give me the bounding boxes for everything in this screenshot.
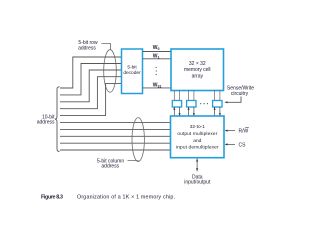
wire column address bit 4 bbox=[60, 149, 171, 151]
svg-text:input demultiplexer: input demultiplexer bbox=[176, 145, 219, 151]
memory cell array U2 bbox=[171, 49, 224, 91]
wire array to sense amp 1 left bbox=[173, 91, 175, 101]
wire word line W1 bbox=[143, 58, 172, 60]
svg-text:R/W: R/W bbox=[239, 129, 249, 135]
wire row address bit 3 bbox=[60, 77, 122, 109]
wire sense amp 2 input arrow up bbox=[188, 107, 190, 116]
wire sense amp 3 input arrow up bbox=[214, 107, 216, 116]
svg-text:address: address bbox=[101, 164, 119, 170]
oval grouping row-address wires bbox=[104, 50, 117, 93]
sense/write amp 2 bbox=[187, 101, 196, 108]
pointer from row-address label to oval bbox=[102, 44, 111, 50]
pointer from column-address label to oval bbox=[128, 161, 139, 162]
ellipsis word lines bbox=[156, 67, 157, 75]
wire CS control arrow bbox=[225, 143, 235, 145]
wire word line W0 bbox=[143, 51, 172, 53]
svg-text:32 × 32: 32 × 32 bbox=[189, 61, 206, 67]
wire sense amp 3 output arrow down bbox=[219, 107, 221, 116]
label 5-bit column address bbox=[97, 158, 124, 169]
svg-text:CS: CS bbox=[239, 142, 247, 148]
svg-text:input/output: input/output bbox=[184, 180, 211, 186]
wire sense amp 2 output arrow down bbox=[193, 107, 195, 116]
label R/W-bar bbox=[239, 127, 249, 134]
wire array to sense amp 3 left bbox=[214, 91, 216, 101]
svg-text:Figure 8.3: Figure 8.3 bbox=[41, 195, 63, 201]
wire row address bit 0 bbox=[60, 57, 122, 88]
wire array to sense amp 1 right bbox=[179, 91, 181, 101]
svg-text:and: and bbox=[193, 138, 201, 144]
svg-text:output multiplexer: output multiplexer bbox=[177, 131, 217, 137]
wire row address bit 4 bbox=[60, 83, 122, 115]
label 10-bit address bbox=[37, 115, 55, 126]
oval grouping column-address wires bbox=[132, 118, 144, 162]
svg-text:address: address bbox=[37, 120, 55, 126]
wire sense amp 1 output arrow down bbox=[179, 107, 181, 116]
sense/write amp 1 bbox=[172, 101, 181, 108]
ellipsis sense amps bbox=[200, 103, 208, 104]
wire column address bit 1 bbox=[60, 128, 171, 130]
wire row address bit 2 bbox=[60, 70, 122, 102]
wire data input/output bidirectional bbox=[196, 159, 198, 172]
multiplexer U3 bbox=[171, 116, 225, 158]
wire sense amp 1 input arrow up bbox=[173, 107, 175, 116]
wire array to sense amp 3 right bbox=[219, 91, 221, 101]
svg-text:decoder: decoder bbox=[123, 70, 141, 76]
label Data input/output bbox=[184, 174, 211, 185]
svg-text:32-to-1: 32-to-1 bbox=[190, 124, 206, 130]
wire column address bit 0 bbox=[60, 122, 171, 124]
svg-text:memory cell: memory cell bbox=[184, 67, 211, 73]
wire word line W31 bbox=[143, 87, 172, 89]
label 5-bit row address bbox=[78, 40, 98, 51]
decoder U1 5-bit decoder bbox=[122, 49, 143, 94]
wire array to sense amp 2 right bbox=[193, 91, 195, 101]
brace grouping 10-bit address bus bbox=[55, 87, 60, 152]
svg-text:circuitry: circuitry bbox=[231, 91, 249, 97]
svg-text:5-bit: 5-bit bbox=[127, 65, 137, 71]
svg-text:array: array bbox=[192, 74, 204, 80]
svg-text:Organization of a 1K × 1 memor: Organization of a 1K × 1 memory chip. bbox=[77, 195, 175, 201]
wire row address bit 1 bbox=[60, 64, 122, 95]
sense/write amp 3 bbox=[213, 101, 222, 108]
svg-text:address: address bbox=[78, 45, 96, 51]
wire array to sense amp 2 left bbox=[188, 91, 190, 101]
caption Figure 8.3 bbox=[41, 195, 175, 201]
label Sense/Write circuitry bbox=[227, 85, 254, 97]
wire column address bit 2 bbox=[60, 135, 171, 137]
wire R/W control arrow bbox=[225, 130, 235, 132]
wire column address bit 3 bbox=[60, 142, 171, 144]
pointer from Sense/Write label to amp 3 bbox=[225, 97, 241, 104]
